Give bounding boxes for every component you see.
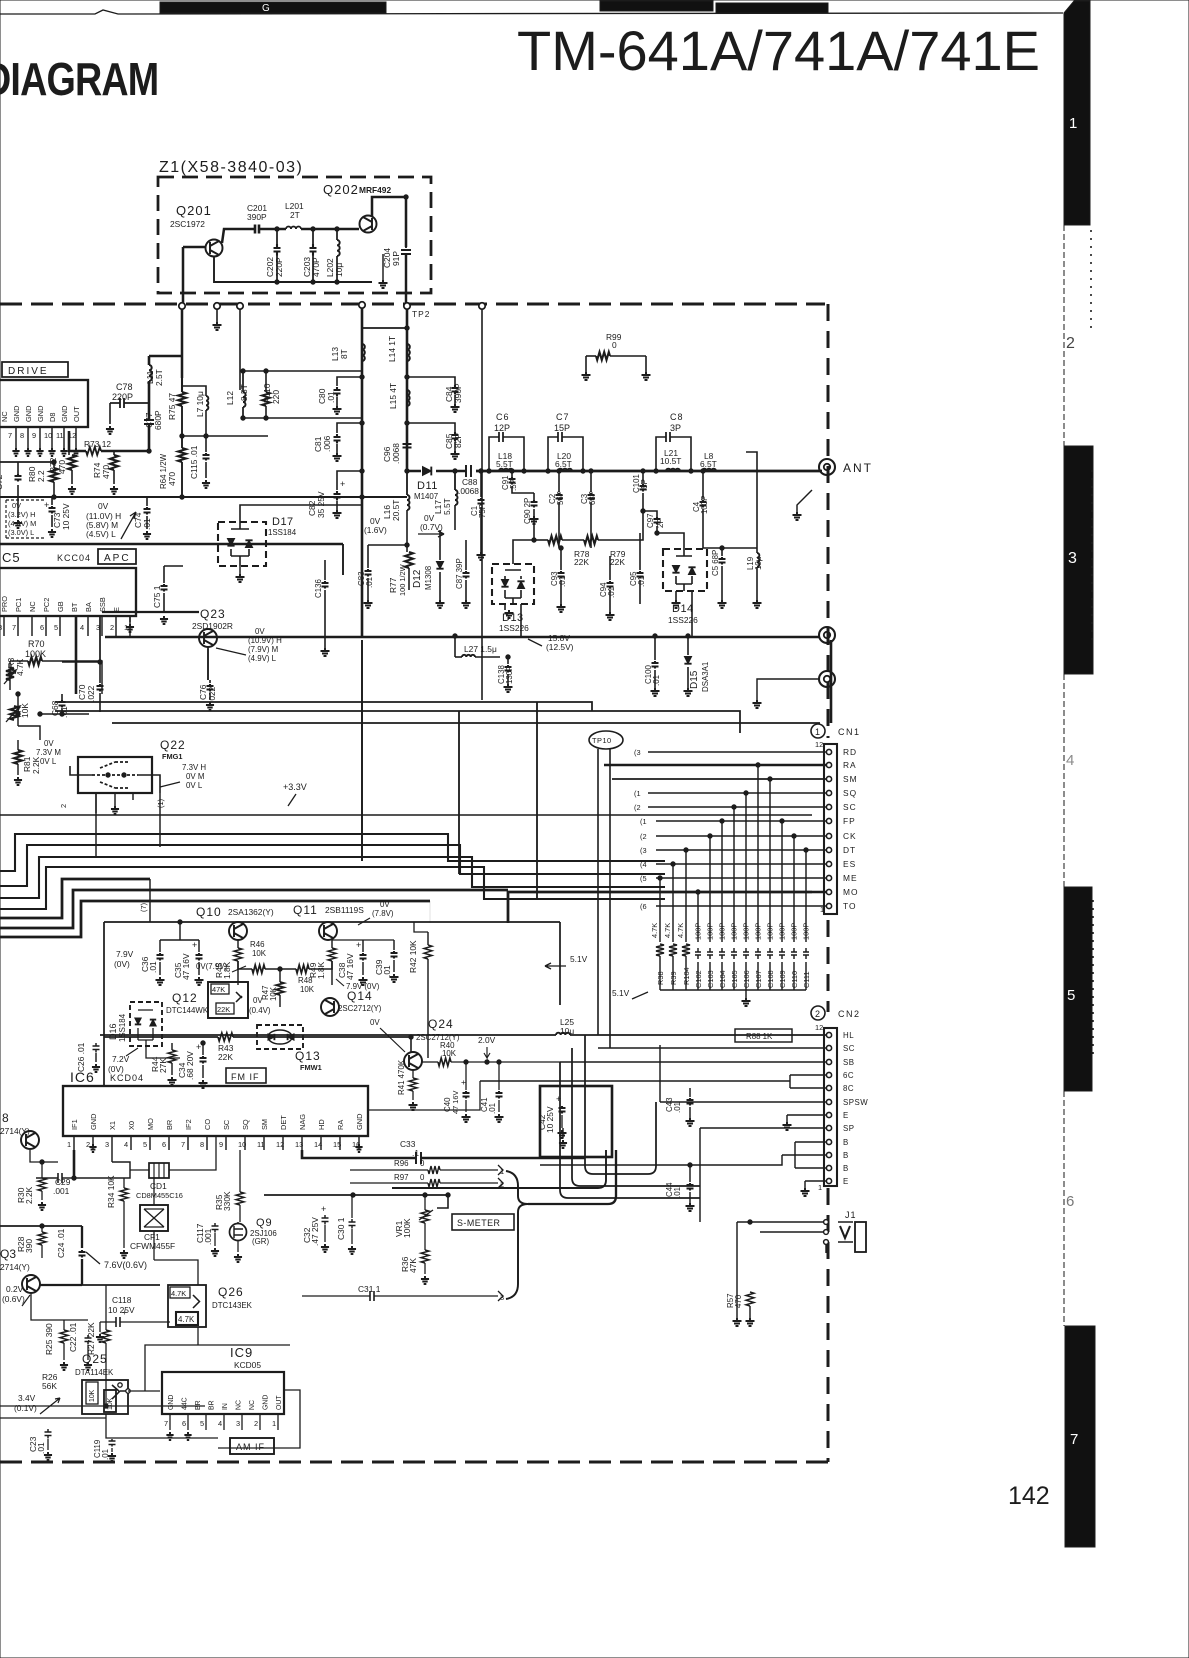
svg-text:+: +: [122, 1307, 127, 1317]
svg-text:G: G: [262, 3, 270, 14]
ic IC6 box: [63, 1086, 368, 1136]
svg-text:BA: BA: [84, 602, 93, 612]
svg-text:(10.9V) H: (10.9V) H: [248, 636, 282, 645]
svg-text:.01: .01: [382, 965, 392, 977]
svg-text:10K: 10K: [442, 1049, 457, 1058]
svg-text:+3.3V: +3.3V: [283, 782, 307, 792]
svg-text:DRIVE: DRIVE: [8, 366, 49, 377]
svg-text:(0V): (0V): [114, 959, 130, 969]
node feedthrough TP: [179, 303, 185, 309]
svg-text:D15: D15: [689, 670, 700, 689]
svg-text:100P: 100P: [754, 923, 763, 940]
svg-text:DT: DT: [843, 845, 856, 855]
svg-text:5: 5: [54, 623, 58, 632]
svg-text:RD: RD: [843, 747, 857, 757]
wire CN2 SP: [700, 1127, 826, 1129]
svg-text:7: 7: [164, 1419, 168, 1428]
svg-text:C72: C72: [0, 474, 4, 490]
svg-text:APC: APC: [104, 553, 131, 564]
svg-text:(7.9V) M: (7.9V) M: [248, 645, 278, 654]
svg-text:1SS184: 1SS184: [268, 528, 297, 537]
svg-text:2SC2712(Y): 2SC2712(Y): [338, 1004, 382, 1013]
transistor Q14: [321, 998, 339, 1016]
wire bus staircase: [0, 834, 665, 871]
wire right loop: [498, 1170, 508, 1296]
svg-text:4.7K: 4.7K: [676, 923, 685, 938]
svg-text:L7 10μ: L7 10μ: [195, 391, 205, 417]
svg-text:RA: RA: [336, 1120, 345, 1130]
transistor Q22 box: [78, 757, 152, 793]
svg-text:X1: X1: [108, 1121, 117, 1130]
ic IC5 box: [0, 568, 136, 616]
section bar 5: [1064, 887, 1092, 1091]
svg-text:FMG1: FMG1: [162, 752, 183, 761]
svg-text:R75 47: R75 47: [167, 393, 177, 420]
svg-text:.01: .01: [148, 961, 158, 973]
label AM IF: [230, 1438, 274, 1454]
svg-text:(1.6V): (1.6V): [364, 525, 387, 535]
svg-text:4.7K: 4.7K: [15, 658, 25, 676]
svg-text:2: 2: [110, 623, 114, 632]
svg-text:12P: 12P: [494, 423, 510, 433]
svg-text:10 25V: 10 25V: [545, 1106, 555, 1133]
svg-text:7.9V: 7.9V: [116, 949, 134, 959]
ic IC9 box: [162, 1372, 284, 1414]
svg-text:2SB1119S: 2SB1119S: [325, 905, 364, 915]
svg-text:0V: 0V: [370, 1018, 380, 1027]
svg-text:(2: (2: [640, 832, 647, 841]
svg-text:DTA114EK: DTA114EK: [75, 1368, 114, 1377]
svg-text:0V: 0V: [12, 501, 21, 510]
svg-text:C5: C5: [2, 550, 21, 565]
svg-text:5.5T: 5.5T: [442, 498, 452, 515]
svg-text:Q9: Q9: [256, 1217, 273, 1229]
svg-text:C22 .01: C22 .01: [68, 1322, 78, 1352]
heading DIAGRAM: [0, 53, 158, 104]
svg-text:.01: .01: [101, 1449, 110, 1460]
svg-text:SM: SM: [260, 1119, 269, 1130]
wire FM IF mid: [104, 1036, 218, 1038]
svg-text:7.3V H: 7.3V H: [182, 763, 206, 772]
svg-text:1SS226: 1SS226: [668, 615, 698, 625]
svg-text:2.2K: 2.2K: [31, 756, 41, 774]
svg-text:DET: DET: [279, 1115, 288, 1130]
svg-text:1: 1: [815, 727, 820, 737]
svg-text:Q22: Q22: [160, 738, 186, 752]
svg-text:.01: .01: [673, 1187, 682, 1198]
section bar 3: [1064, 446, 1093, 674]
wire trunk x482: [481, 309, 483, 700]
wire trunk x182: [181, 309, 184, 378]
label APC: [98, 549, 136, 564]
svg-text:0V M: 0V M: [186, 772, 204, 781]
svg-text:2.2K: 2.2K: [24, 1186, 34, 1204]
svg-text:CFWM455F: CFWM455F: [130, 1241, 175, 1251]
svg-text:2.2: 2.2: [36, 470, 46, 482]
transistor Q202: [360, 216, 377, 233]
svg-text:Q14: Q14: [347, 989, 373, 1003]
svg-text:L14 1T: L14 1T: [387, 336, 397, 362]
svg-text:PC1: PC1: [14, 598, 23, 612]
wire IC6 pin1 feed: [73, 1150, 76, 1178]
resistor R88: [735, 1029, 792, 1042]
svg-text:BR: BR: [209, 1400, 216, 1410]
svg-text:130P: 130P: [505, 666, 514, 684]
wire stub 7 to FM IF: [149, 879, 151, 922]
svg-text:(7): (7): [139, 903, 148, 912]
svg-text:OUT: OUT: [72, 406, 81, 422]
svg-text:2.5T: 2.5T: [154, 369, 164, 386]
svg-text:ME: ME: [843, 873, 858, 883]
wire trunk x240: [239, 309, 241, 390]
ground CN2 E2: [805, 1181, 826, 1188]
svg-text:10K: 10K: [107, 1397, 114, 1410]
svg-text:KCD05: KCD05: [234, 1360, 261, 1370]
svg-text:D8: D8: [48, 413, 57, 422]
svg-text:C7: C7: [556, 412, 570, 422]
svg-text:R88 1K: R88 1K: [746, 1032, 773, 1041]
wire meter brace: [506, 1171, 528, 1299]
svg-text:(12.5V): (12.5V): [546, 642, 574, 652]
connector CN2 box: [824, 1028, 837, 1186]
svg-text:BR: BR: [165, 1120, 174, 1130]
svg-text:C24 .01: C24 .01: [56, 1228, 66, 1258]
wire row y495: [0, 461, 54, 463]
svg-text:5.1V: 5.1V: [612, 988, 630, 998]
svg-text:BR: BR: [195, 1400, 202, 1410]
connector ANT: [819, 459, 835, 475]
svg-text:(5: (5: [640, 874, 647, 883]
connector X2: [819, 627, 835, 643]
transistor Q10: [229, 922, 247, 940]
svg-text:6: 6: [162, 1140, 166, 1149]
svg-text:1: 1: [818, 1183, 822, 1192]
connector CN2 header: [811, 1006, 825, 1020]
svg-text:8T: 8T: [339, 349, 349, 359]
svg-text:+: +: [192, 940, 197, 950]
node Z1 ground bus: [214, 257, 372, 282]
svg-text:M1308: M1308: [424, 565, 433, 590]
svg-text:6.5T: 6.5T: [700, 459, 717, 469]
svg-text:0: 0: [612, 340, 617, 350]
svg-text:330K: 330K: [222, 1191, 232, 1211]
svg-text:R42 10K: R42 10K: [408, 940, 418, 973]
svg-text:100P: 100P: [778, 923, 787, 940]
registration bar G: [160, 2, 386, 13]
svg-text:Q3: Q3: [0, 1247, 16, 1261]
svg-text:FM IF: FM IF: [231, 1072, 260, 1082]
transistor Q25 box: [82, 1380, 128, 1414]
wire Q24 out down: [470, 1005, 560, 1052]
svg-text:SQ: SQ: [843, 788, 857, 798]
svg-text:10K: 10K: [89, 1389, 96, 1402]
svg-text:GB: GB: [56, 601, 65, 612]
svg-text:7.9V (0V): 7.9V (0V): [346, 982, 380, 991]
svg-text:GND: GND: [355, 1114, 364, 1130]
svg-text:2: 2: [815, 1009, 820, 1019]
svg-text:GND: GND: [168, 1395, 175, 1410]
svg-text:27K: 27K: [158, 1058, 168, 1073]
wire trunk x362: [361, 308, 364, 636]
svg-text:5: 5: [143, 1140, 147, 1149]
wire Q25 out: [106, 1414, 218, 1438]
svg-text:390P: 390P: [247, 212, 267, 222]
svg-text:R41 470K: R41 470K: [397, 1059, 406, 1095]
svg-text:CN1: CN1: [838, 727, 861, 737]
svg-text:11: 11: [56, 431, 64, 440]
voltage callout C72: [6, 500, 44, 538]
svg-text:5.1V: 5.1V: [570, 954, 588, 964]
svg-text:7.6V(0.6V): 7.6V(0.6V): [104, 1260, 147, 1270]
svg-text:47 16V: 47 16V: [181, 953, 191, 980]
svg-text:5: 5: [1067, 987, 1075, 1004]
svg-text:9: 9: [219, 1140, 223, 1149]
svg-text:9: 9: [32, 431, 36, 440]
svg-text:15P: 15P: [554, 423, 570, 433]
svg-text:CD8M455C16: CD8M455C16: [136, 1191, 183, 1200]
svg-text:R46: R46: [250, 940, 265, 949]
svg-text:(7.8V): (7.8V): [372, 909, 394, 918]
svg-text:.01: .01: [365, 577, 374, 588]
svg-text:0V: 0V: [380, 900, 390, 909]
connector CN2 pins: [826, 1032, 831, 1037]
svg-text:4.7K: 4.7K: [178, 1315, 195, 1324]
svg-text:+: +: [356, 940, 361, 950]
svg-text:(3.0V) L: (3.0V) L: [8, 528, 34, 537]
svg-text:L27 1.5μ: L27 1.5μ: [464, 644, 497, 654]
svg-text:CO: CO: [203, 1119, 212, 1130]
diode module D14: [663, 549, 707, 591]
svg-text:RA: RA: [843, 760, 857, 770]
wire Q22 pin stubs: [95, 793, 97, 813]
svg-text:220P: 220P: [274, 257, 284, 277]
svg-text:.01: .01: [558, 576, 567, 587]
svg-text:E: E: [843, 1111, 849, 1120]
svg-text:7: 7: [12, 623, 16, 632]
capacitor C88: [466, 465, 471, 477]
svg-text:PRO: PRO: [0, 596, 9, 612]
connector X3: [819, 671, 835, 687]
svg-text:GND: GND: [24, 406, 33, 422]
wire row y436: [182, 435, 268, 437]
svg-text:+: +: [340, 479, 345, 489]
svg-text:0V(7.9V): 0V(7.9V): [196, 962, 228, 971]
svg-text:8: 8: [0, 623, 2, 632]
svg-text:470: 470: [167, 472, 177, 486]
svg-text:CK: CK: [843, 831, 857, 841]
ic drive box: [0, 380, 88, 427]
svg-text:100P: 100P: [766, 923, 775, 940]
wire CN1 pin lines: [648, 751, 826, 753]
svg-text:20.5T: 20.5T: [391, 500, 401, 521]
wire CN2 B bracket: [540, 1142, 826, 1168]
ground stub under border: [216, 309, 218, 322]
diode D11: [423, 467, 432, 476]
svg-text:0V: 0V: [255, 627, 265, 636]
svg-text:(3: (3: [634, 748, 641, 757]
svg-text:Q24: Q24: [428, 1017, 454, 1031]
svg-text:SC: SC: [843, 802, 857, 812]
svg-text:SQ: SQ: [241, 1119, 250, 1130]
svg-text:100P: 100P: [790, 923, 799, 940]
svg-text:(3.2V) H: (3.2V) H: [8, 510, 36, 519]
wire vertical x459: [458, 711, 460, 874]
svg-text:D11: D11: [417, 480, 438, 492]
wire cap bank ground rail: [660, 989, 806, 991]
svg-text:J1: J1: [845, 1210, 857, 1220]
svg-text:R27 22K: R27 22K: [86, 1322, 96, 1355]
svg-text:47 16V: 47 16V: [345, 953, 355, 980]
wire bus y714: [55, 711, 740, 733]
svg-text:56K: 56K: [42, 1381, 57, 1391]
svg-text:75P: 75P: [478, 504, 487, 518]
svg-text:Q11: Q11: [293, 903, 318, 917]
label FM IF: [226, 1068, 266, 1083]
diode module D13: [492, 564, 534, 604]
svg-text:C115 .01: C115 .01: [189, 445, 199, 479]
svg-text:R73 12: R73 12: [84, 439, 111, 449]
svg-text:R34 10K: R34 10K: [106, 1175, 116, 1208]
svg-text:100P: 100P: [742, 923, 751, 940]
svg-text:8C: 8C: [843, 1084, 854, 1093]
svg-text:DTC144WK: DTC144WK: [166, 1006, 209, 1015]
svg-text:1: 1: [272, 1419, 276, 1428]
wire CN2 SC: [598, 1047, 826, 1049]
svg-text:2.0V: 2.0V: [478, 1035, 496, 1045]
svg-text:.01: .01: [652, 675, 661, 686]
svg-text:100P: 100P: [694, 923, 703, 940]
svg-text:TO: TO: [843, 901, 856, 911]
wire Z1 base bus: [183, 246, 205, 249]
svg-text:+: +: [44, 500, 49, 510]
svg-text:DSA3A1: DSA3A1: [701, 662, 710, 692]
svg-text:15: 15: [333, 1140, 341, 1149]
svg-text:ES: ES: [843, 859, 856, 869]
svg-text:(4.4V) M: (4.4V) M: [8, 519, 36, 528]
svg-text:22K: 22K: [610, 557, 625, 567]
main board dashed border right: [827, 304, 830, 1462]
svg-text:0.2V: 0.2V: [6, 1284, 24, 1294]
svg-text:10: 10: [238, 1140, 246, 1149]
svg-text:PC2: PC2: [42, 598, 51, 612]
svg-text:.001: .001: [53, 1186, 70, 1196]
svg-text:0V: 0V: [98, 501, 109, 511]
component CD1: [149, 1163, 169, 1178]
svg-text:220P: 220P: [112, 392, 133, 402]
wire antenna feed: [407, 470, 421, 473]
svg-text:IC9: IC9: [230, 1345, 253, 1360]
svg-text:Q23: Q23: [200, 607, 226, 621]
component CF1: [140, 1205, 168, 1231]
transistor Q201: [206, 240, 223, 257]
svg-text:R97: R97: [394, 1173, 408, 1182]
svg-text:Q10: Q10: [196, 905, 222, 919]
ic drive pins: [15, 427, 17, 448]
svg-text:DIAGRAM: DIAGRAM: [0, 53, 158, 104]
connector CN1 box: [824, 744, 837, 914]
svg-text:3: 3: [105, 1140, 109, 1149]
svg-text:3: 3: [1068, 550, 1077, 567]
svg-text:22K: 22K: [217, 1005, 230, 1014]
svg-text:4: 4: [124, 1140, 128, 1149]
svg-text:0: 0: [420, 1159, 425, 1168]
svg-text:(0.6V): (0.6V): [2, 1294, 25, 1304]
registration bar right: [600, 1, 713, 11]
svg-text:MO: MO: [843, 887, 859, 897]
svg-text:B: B: [843, 1164, 849, 1173]
svg-text:X0: X0: [127, 1121, 136, 1130]
svg-text:10 25V: 10 25V: [61, 503, 71, 530]
diode module D17: [218, 522, 266, 566]
wire meter rail y1195: [264, 1194, 448, 1196]
svg-text:.01: .01: [488, 1103, 497, 1114]
svg-text:22K: 22K: [218, 1052, 233, 1062]
svg-text:.01: .01: [637, 576, 646, 587]
svg-text:Q25: Q25: [82, 1352, 108, 1366]
svg-text:SSB: SSB: [98, 597, 107, 612]
svg-text:680P: 680P: [153, 410, 163, 430]
svg-text:FMW1: FMW1: [300, 1063, 322, 1072]
svg-text:HL: HL: [843, 1031, 854, 1040]
svg-text:B: B: [843, 1138, 849, 1147]
svg-text:C30 1: C30 1: [336, 1217, 346, 1240]
main board dashed border top: [0, 303, 825, 306]
label S-METER: [452, 1214, 514, 1230]
svg-text:E: E: [843, 1177, 849, 1186]
svg-text:5: 5: [200, 1419, 204, 1428]
svg-text:.68 20V: .68 20V: [185, 1051, 195, 1080]
svg-text:6: 6: [182, 1419, 186, 1428]
svg-text:100 1/2W: 100 1/2W: [398, 564, 407, 596]
svg-text:470: 470: [101, 465, 111, 479]
svg-text:1: 1: [1069, 115, 1077, 132]
svg-text:47K: 47K: [212, 985, 225, 994]
svg-text:(1: (1: [634, 789, 641, 798]
ic IC5 pins: [3, 616, 5, 636]
svg-text:D12: D12: [412, 569, 423, 588]
svg-text:1SS226: 1SS226: [499, 623, 529, 633]
module Z1 dashed box: [158, 177, 431, 293]
svg-text:6: 6: [1066, 1193, 1074, 1210]
svg-text:.022: .022: [86, 685, 96, 702]
svg-text:R70: R70: [28, 639, 45, 649]
wire CN2 SPSW: [660, 1101, 826, 1103]
label DRIVE: [2, 362, 68, 377]
svg-text:S-METER: S-METER: [457, 1218, 500, 1228]
svg-text:GND: GND: [60, 406, 69, 422]
wire nested loop b: [572, 1048, 700, 1186]
svg-text:NC: NC: [236, 1400, 243, 1410]
ground CN2 E: [787, 1115, 826, 1122]
wire FM IF top rail: [104, 921, 560, 923]
test point TP10: [589, 731, 623, 749]
svg-text:4.7K: 4.7K: [171, 1289, 186, 1298]
svg-text:44C: 44C: [182, 1397, 189, 1410]
svg-text:TM-641A/741A/741E: TM-641A/741A/741E: [517, 19, 1040, 82]
svg-text:10.5T: 10.5T: [660, 456, 681, 466]
svg-text:6.5T: 6.5T: [555, 459, 572, 469]
svg-text:AM IF: AM IF: [236, 1442, 265, 1452]
connector CN1 header: [811, 724, 825, 738]
svg-text:100P: 100P: [706, 923, 715, 940]
svg-text:KCD04: KCD04: [110, 1073, 144, 1083]
wire CN2 SB: [560, 1061, 826, 1063]
transistor Q26 box: [168, 1285, 206, 1327]
module box right of IC6: [540, 1086, 612, 1157]
svg-text:Q12: Q12: [172, 991, 198, 1005]
svg-text:NC: NC: [28, 601, 37, 612]
section bar guide line: [1063, 225, 1065, 1326]
